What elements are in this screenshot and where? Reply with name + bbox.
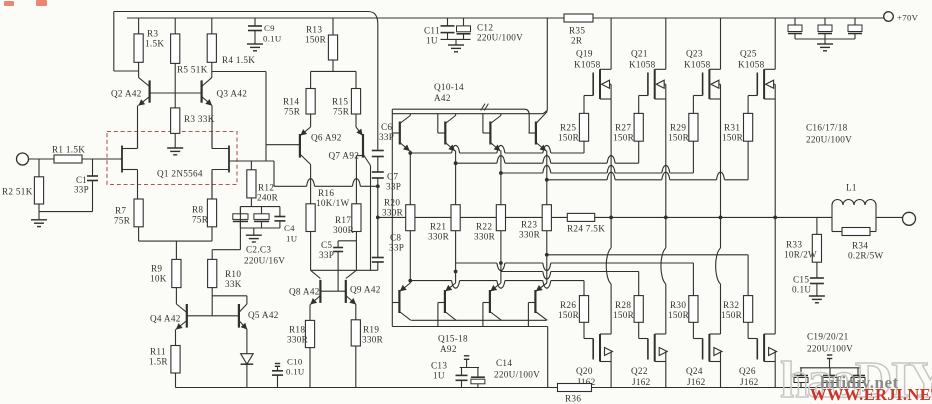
svg-text:0.1U: 0.1U <box>792 285 811 295</box>
wire driver collector line upper <box>392 113 543 115</box>
svg-text:C8: C8 <box>390 233 401 243</box>
wire R2 branch <box>38 159 40 177</box>
svg-text:Q24: Q24 <box>686 366 703 376</box>
capacitor C4 1U <box>279 207 281 217</box>
resistor R15 75R <box>351 89 360 115</box>
svg-text:33P: 33P <box>389 243 404 253</box>
resistor R14 75R <box>306 89 315 115</box>
svg-text:C4: C4 <box>284 223 295 233</box>
capacitor C7 33P <box>377 157 379 173</box>
svg-text:C15: C15 <box>793 275 809 285</box>
capacitor C6 33P <box>377 24 379 151</box>
svg-text:Q8 A42: Q8 A42 <box>289 287 320 297</box>
wire input to R1 <box>82 158 120 160</box>
resistor R27 150R <box>634 113 643 141</box>
svg-text:R34: R34 <box>852 241 868 251</box>
resistor R2 51K <box>34 177 43 204</box>
svg-text:150R: 150R <box>722 133 744 143</box>
svg-text:Q1 2N5564: Q1 2N5564 <box>157 169 203 179</box>
svg-text:K1058: K1058 <box>684 60 711 70</box>
svg-text:J162: J162 <box>687 377 706 387</box>
svg-text:Q22: Q22 <box>631 366 648 376</box>
capacitor C8 33P <box>372 257 384 259</box>
capacitor C5 33P <box>338 240 356 242</box>
svg-text:R9: R9 <box>151 264 162 274</box>
svg-text:2R: 2R <box>571 36 583 46</box>
capacitor C3 electrolytic <box>261 207 263 214</box>
svg-text:R3 33K: R3 33K <box>184 114 215 124</box>
svg-text:1U: 1U <box>286 234 298 244</box>
svg-text:150R: 150R <box>558 310 580 320</box>
svg-text:Q21: Q21 <box>631 49 648 59</box>
svg-text:+70V: +70V <box>897 13 919 23</box>
resistor R36 <box>558 384 592 392</box>
svg-text:150R: 150R <box>613 133 635 143</box>
svg-text:R24 7.5K: R24 7.5K <box>567 224 605 234</box>
svg-text:Q15-18: Q15-18 <box>438 334 468 344</box>
svg-text:R28: R28 <box>615 300 631 310</box>
wire R14-R15 top bar <box>311 70 356 72</box>
svg-text:R16: R16 <box>318 188 334 198</box>
svg-text:0.1U: 0.1U <box>263 34 282 44</box>
svg-text:R11: R11 <box>150 347 166 357</box>
svg-text:Q25: Q25 <box>740 49 757 59</box>
resistor R21 330R <box>455 163 457 205</box>
capacitor C1 33P <box>92 159 94 176</box>
svg-text:1.5R: 1.5R <box>149 357 168 367</box>
svg-text:R20: R20 <box>384 198 400 208</box>
resistor R1 1.5K <box>54 155 82 163</box>
mosfet Q23 K1058 <box>720 18 722 69</box>
dashed box Q1 outline <box>107 132 237 185</box>
svg-text:Q7 A92: Q7 A92 <box>329 151 360 161</box>
svg-text:K1058: K1058 <box>574 60 601 70</box>
ground below R3 33K <box>174 133 176 148</box>
svg-text:C6: C6 <box>381 122 392 132</box>
resistor R24 7.5K <box>567 213 594 221</box>
svg-text:Q20: Q20 <box>576 366 593 376</box>
svg-text:R25: R25 <box>560 123 576 133</box>
svg-text:C2.C3: C2.C3 <box>246 245 271 255</box>
wire driver collector line lower <box>411 319 546 321</box>
mosfet Q21 K1058 <box>665 18 667 69</box>
resistor R22 330R <box>500 173 502 205</box>
output terminal <box>903 212 916 225</box>
svg-text:R8: R8 <box>192 205 203 215</box>
svg-text:C11: C11 <box>424 26 440 36</box>
svg-text:Q23: Q23 <box>686 49 703 59</box>
wire +70V rail <box>127 17 564 19</box>
mosfet Q25 K1058 <box>774 18 776 69</box>
svg-text:C13: C13 <box>431 361 447 371</box>
resistor R33 10R/2W <box>816 217 818 234</box>
svg-text:L1: L1 <box>846 183 857 193</box>
resistor R34 0.2R/5W <box>831 217 833 231</box>
mosfet Q24 J162 <box>720 217 722 248</box>
svg-text:R30: R30 <box>670 300 686 310</box>
svg-text:R15: R15 <box>332 97 348 107</box>
resistor R10 33K <box>211 251 213 259</box>
svg-text:150R: 150R <box>305 35 327 45</box>
svg-text:A42: A42 <box>434 93 451 103</box>
resistor R3 1.5K <box>138 18 140 34</box>
svg-text:150R: 150R <box>613 310 635 320</box>
wire C11 C12 join + ground <box>441 38 471 40</box>
wire driver base line upper <box>392 108 524 110</box>
mosfet Q19 K1058 <box>610 18 612 69</box>
capacitors C16/17/18 220U/100V <box>794 18 796 25</box>
svg-text:1U: 1U <box>433 371 445 381</box>
resistor R19 330R <box>351 320 360 346</box>
wire R7-R8 common to R9 <box>139 240 212 242</box>
wire R2 bottom to C1 bottom <box>38 204 40 212</box>
svg-text:R10: R10 <box>225 269 241 279</box>
wire left bias vertical <box>391 109 393 326</box>
svg-text:R4 1.5K: R4 1.5K <box>222 55 255 65</box>
wire left branch to R10 <box>239 207 241 228</box>
svg-text:220U/16V: 220U/16V <box>244 256 285 266</box>
svg-text:R17: R17 <box>335 215 351 225</box>
transistor Q11 A42 <box>444 122 446 145</box>
resistor R25 150R <box>579 113 588 141</box>
resistor R11 1.5R <box>171 346 180 374</box>
capacitor C14 220U/100V <box>477 368 479 378</box>
wire gate bus 3 lower <box>501 271 543 273</box>
capacitor C11 1U <box>447 18 449 26</box>
resistor R23 330R <box>546 180 548 205</box>
wire gate bus 2 lower <box>456 262 497 264</box>
wire -supply bottom rail <box>176 387 865 389</box>
capacitor C13 1U <box>464 355 469 357</box>
svg-text:R21: R21 <box>430 222 446 232</box>
capacitor C12 220U/100V <box>463 18 465 26</box>
svg-text:Q19: Q19 <box>576 49 593 59</box>
svg-text:330R: 330R <box>287 335 309 345</box>
wire R3 bottom to Q2 collector <box>138 62 140 77</box>
svg-text:R26: R26 <box>560 300 576 310</box>
svg-text:220U/100V: 220U/100V <box>477 33 523 43</box>
node output rail <box>378 216 568 218</box>
svg-text:330R: 330R <box>428 232 450 242</box>
svg-text:10K: 10K <box>150 274 167 284</box>
wire C2C3 top bar <box>240 206 280 208</box>
wire C7 to C8 <box>377 178 379 258</box>
svg-text:R23: R23 <box>521 220 537 230</box>
svg-text:0.1U: 0.1U <box>286 367 305 377</box>
svg-text:A92: A92 <box>440 344 457 354</box>
svg-text:75R: 75R <box>333 107 350 117</box>
wire Q3 collector to VAS column <box>212 71 266 73</box>
svg-text:R35: R35 <box>569 26 585 36</box>
wire top feedback loop from front-end to C6 column <box>114 11 368 13</box>
svg-text:R7: R7 <box>115 206 126 216</box>
svg-text:330R: 330R <box>519 230 541 240</box>
resistor R8 75R <box>211 170 213 200</box>
crossover slashes <box>481 104 485 111</box>
svg-text:J162: J162 <box>740 377 759 387</box>
svg-text:330R: 330R <box>474 232 496 242</box>
svg-text:10K/1W: 10K/1W <box>316 198 349 208</box>
corner artifact marks <box>4 1 14 6</box>
svg-text:R31: R31 <box>724 123 740 133</box>
transistor Q13 A42 <box>535 122 537 145</box>
svg-text:75R: 75R <box>284 107 301 117</box>
ground below C2C3 <box>253 228 255 235</box>
svg-text:R13: R13 <box>306 25 322 35</box>
svg-text:150R: 150R <box>558 133 580 143</box>
svg-text:75R: 75R <box>192 215 209 225</box>
resistor R17 300R <box>352 204 361 232</box>
svg-text:R5 51K: R5 51K <box>177 65 208 75</box>
wire gate bus 1 lower <box>547 254 748 256</box>
resistor R12 240R <box>250 161 252 170</box>
resistor R26 150R <box>579 296 588 323</box>
svg-text:C1: C1 <box>76 175 87 185</box>
svg-text:R33: R33 <box>786 240 802 250</box>
resistor R9 10K <box>172 259 181 287</box>
svg-text:220U/100V: 220U/100V <box>806 135 852 145</box>
svg-text:K1058: K1058 <box>629 60 656 70</box>
svg-text:R14: R14 <box>283 97 299 107</box>
svg-text:Q4 A42: Q4 A42 <box>150 314 181 324</box>
transistor Q17 A92 <box>489 290 491 313</box>
wire gate bus 1 <box>410 152 451 154</box>
svg-text:R22: R22 <box>476 222 492 232</box>
resistor R16 10K/1W <box>306 204 315 232</box>
svg-text:Q6 A92: Q6 A92 <box>311 133 342 143</box>
resistor R7 75R <box>134 199 143 227</box>
svg-text:C5: C5 <box>321 240 332 250</box>
svg-text:150R: 150R <box>668 133 690 143</box>
transistor Q16 A92 <box>444 290 446 313</box>
svg-text:R2 51K: R2 51K <box>2 187 33 197</box>
wire gate bus 3 <box>501 172 543 174</box>
svg-text:150R: 150R <box>668 310 690 320</box>
+70V terminal <box>884 12 894 22</box>
mosfet Q20 J162 <box>610 217 612 248</box>
capacitor C15 0.1U <box>816 262 818 278</box>
svg-text:K1058: K1058 <box>738 60 765 70</box>
svg-text:Q10-14: Q10-14 <box>434 82 464 92</box>
transistor Q12 A42 <box>489 122 491 145</box>
svg-text:Q9 A42: Q9 A42 <box>350 285 381 295</box>
svg-text:33P: 33P <box>319 250 334 260</box>
resistor R5 51K <box>174 18 176 34</box>
resistor R20 330R <box>409 153 411 205</box>
svg-text:150R: 150R <box>721 310 743 320</box>
mosfet Q26 J162 <box>774 217 776 334</box>
resistor R29 150R <box>689 113 698 141</box>
svg-text:240R: 240R <box>257 193 279 203</box>
svg-text:10R/2W: 10R/2W <box>784 250 817 260</box>
svg-text:R19: R19 <box>363 325 379 335</box>
svg-text:Q3 A42: Q3 A42 <box>217 89 248 99</box>
svg-text:1U: 1U <box>426 36 438 46</box>
svg-text:C14: C14 <box>496 358 512 368</box>
svg-text:C19/20/21: C19/20/21 <box>807 332 849 342</box>
svg-text:330R: 330R <box>362 335 384 345</box>
input terminal <box>17 153 29 165</box>
svg-text:WWW.ERJI.NET: WWW.ERJI.NET <box>810 385 932 404</box>
jfet Q1 left half <box>120 158 123 160</box>
wire gate bus 4 lower <box>410 280 451 282</box>
svg-text:C16/17/18: C16/17/18 <box>806 123 848 133</box>
resistor R32 150R <box>744 296 753 323</box>
resistor R30 150R <box>689 296 698 323</box>
mosfet Q22 J162 <box>665 217 667 248</box>
svg-text:R29: R29 <box>670 123 686 133</box>
capacitor C10 0.1U <box>275 363 280 365</box>
svg-text:0.2R/5W: 0.2R/5W <box>848 251 884 261</box>
resistor R28 150R <box>634 296 643 323</box>
wire VAS gate line <box>274 185 307 187</box>
wire gate bus 2 <box>456 162 497 164</box>
resistor R4 1.5K <box>211 18 213 34</box>
svg-text:33K: 33K <box>225 279 242 289</box>
svg-text:Q5 A42: Q5 A42 <box>248 310 279 320</box>
svg-text:R32: R32 <box>723 300 739 310</box>
capacitor C9 0.1U <box>254 18 256 26</box>
svg-text:J162: J162 <box>632 377 651 387</box>
wire driver base line lower <box>392 326 547 328</box>
svg-text:Q2 A42: Q2 A42 <box>111 89 142 99</box>
jfet Q1 right half <box>229 160 274 162</box>
wire C2C3 bottom bar <box>240 227 280 229</box>
svg-text:300R: 300R <box>333 225 355 235</box>
svg-text:33P: 33P <box>386 182 401 192</box>
svg-text:330R: 330R <box>382 208 404 218</box>
svg-text:R18: R18 <box>289 325 305 335</box>
svg-text:C12: C12 <box>477 23 493 33</box>
svg-text:75R: 75R <box>114 216 131 226</box>
resistor R13 150R <box>332 18 334 35</box>
diode D1 <box>241 354 254 365</box>
svg-text:C10: C10 <box>287 357 303 367</box>
resistor R31 150R <box>744 113 753 141</box>
resistor R18 330R <box>305 320 314 347</box>
transistor Q18 A92 <box>534 290 536 313</box>
wire VAS collector line <box>311 269 378 271</box>
wire gate bus 4 <box>547 179 607 181</box>
svg-text:C9: C9 <box>264 23 275 33</box>
ground below R2 <box>38 212 40 220</box>
resistor R35 2R <box>564 14 593 22</box>
capacitor C2 electrolytic <box>239 207 241 214</box>
svg-text:R12: R12 <box>258 183 274 193</box>
svg-text:R1 1.5K: R1 1.5K <box>52 145 85 155</box>
svg-text:R36: R36 <box>565 394 581 404</box>
svg-text:R3: R3 <box>147 29 158 39</box>
transistor Q10 A42 <box>399 122 401 145</box>
wire R5 bottom through base line to R3 33K <box>174 63 176 108</box>
svg-text:220U/100V: 220U/100V <box>494 370 540 380</box>
svg-text:1.5K: 1.5K <box>145 39 164 49</box>
transistor Q15 A92 <box>398 290 400 313</box>
svg-text:R27: R27 <box>615 123 631 133</box>
svg-text:33P: 33P <box>74 185 89 195</box>
resistor R3 33K <box>171 108 180 133</box>
svg-text:Q26: Q26 <box>739 366 756 376</box>
